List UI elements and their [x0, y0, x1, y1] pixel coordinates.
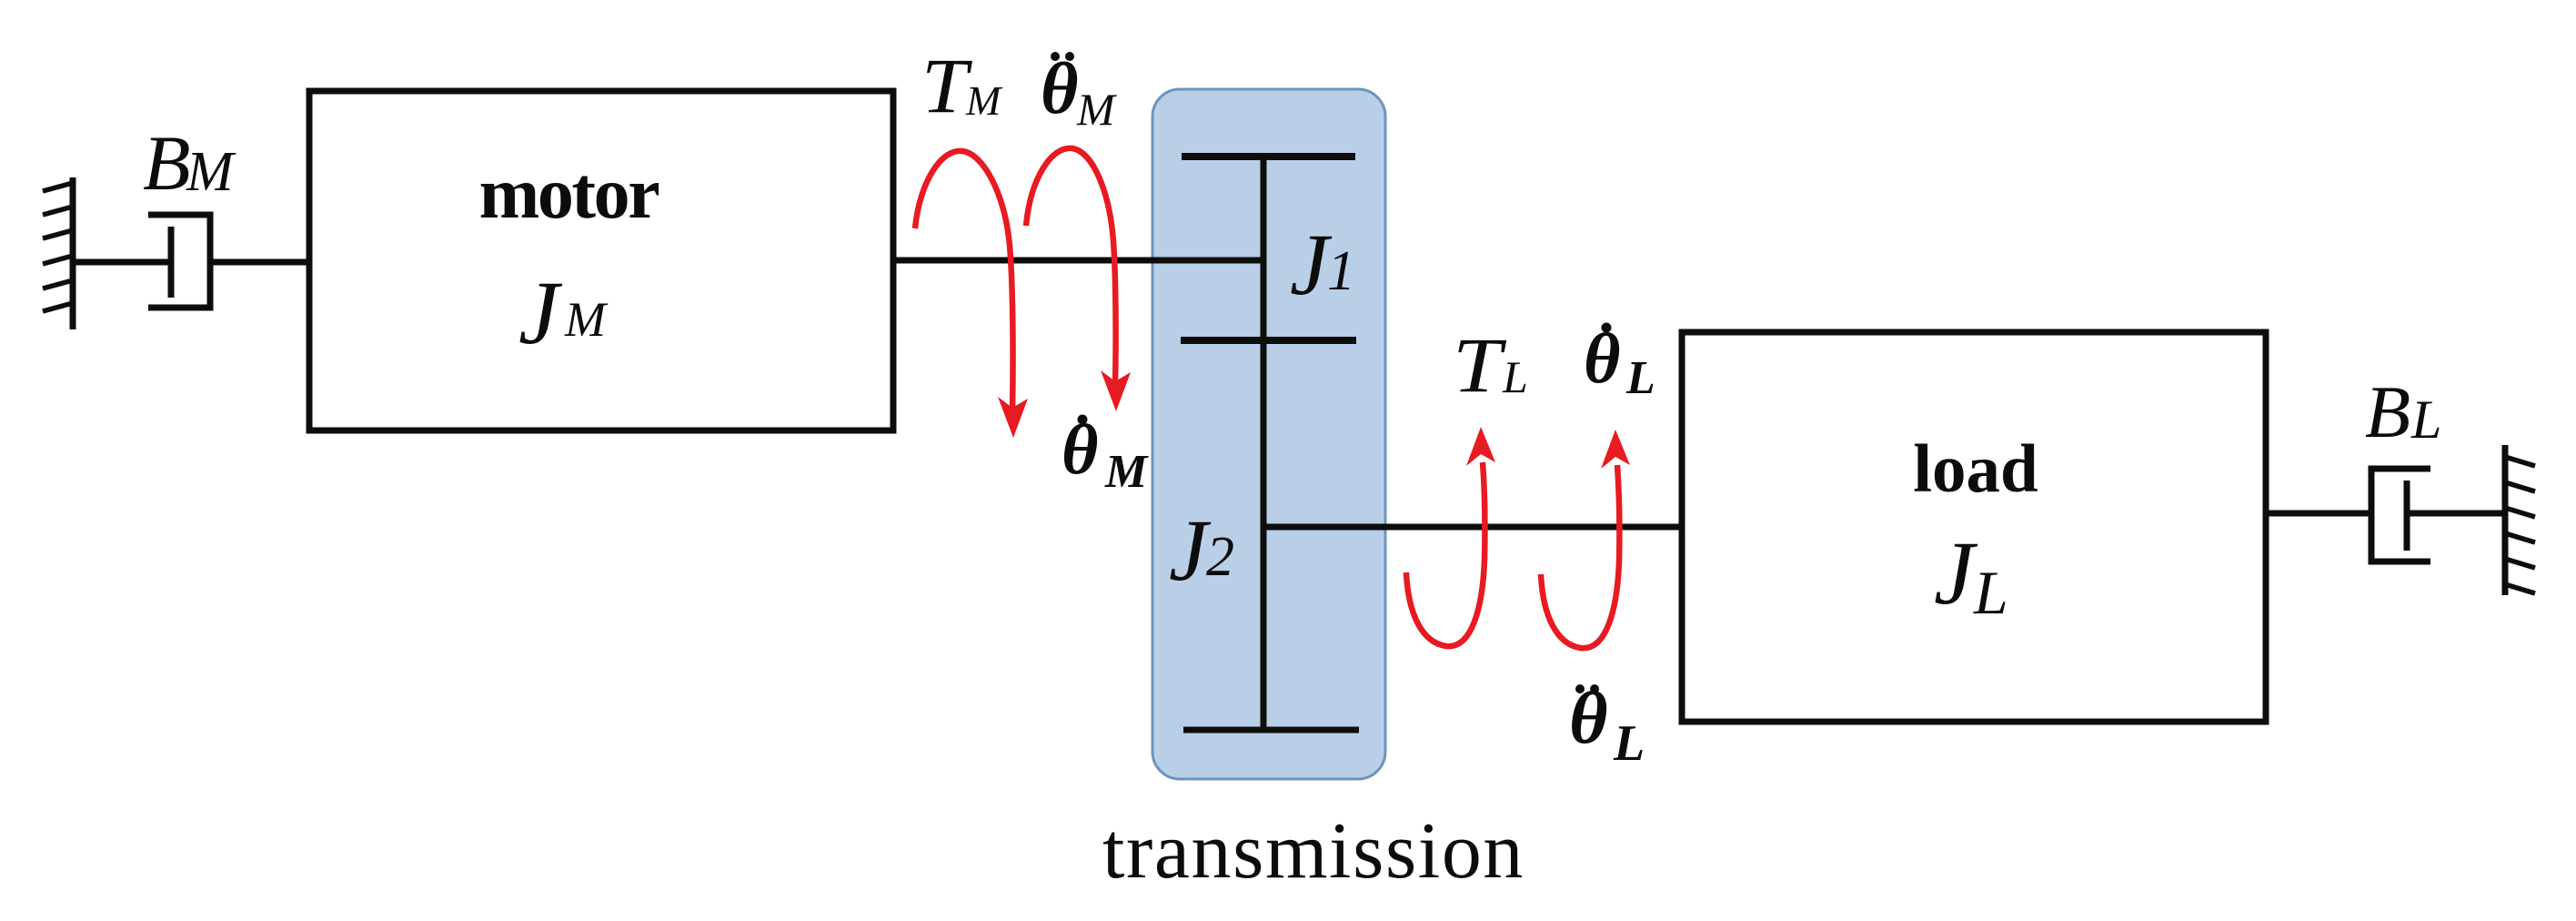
wire damper BM to motor: [210, 259, 309, 266]
svg-text:L: L: [1502, 351, 1528, 402]
gear middle bar: [1181, 337, 1356, 344]
svg-text:1: 1: [1327, 240, 1355, 302]
arrow TM torque: [915, 151, 1028, 438]
label J2: [1169, 501, 1234, 599]
svg-text:J: J: [1934, 522, 1978, 623]
label thetadot M: [1062, 410, 1149, 498]
svg-text:load: load: [1913, 431, 2038, 507]
ground wall left: [43, 177, 73, 329]
svg-text:L: L: [2410, 390, 2441, 450]
arrow thetadot L: [1541, 430, 1630, 648]
gear J2 bottom bar: [1183, 727, 1359, 734]
arrow thetaddot M: [1026, 148, 1131, 411]
label thetaddot M: [1041, 49, 1117, 135]
label TM: [921, 43, 1003, 129]
svg-text:J: J: [518, 262, 563, 363]
svg-text:θ: θ: [1041, 49, 1079, 129]
label thetadot L: [1584, 319, 1655, 404]
arrow TL torque: [1406, 427, 1495, 646]
label TL: [1453, 322, 1528, 409]
svg-text:B: B: [2365, 370, 2410, 453]
svg-text:θ: θ: [1584, 319, 1621, 398]
svg-text:T: T: [1453, 322, 1507, 409]
motor block JM: [309, 91, 893, 430]
svg-text:J: J: [1169, 501, 1212, 599]
svg-text:M: M: [1104, 446, 1149, 498]
wire wall to damper BM piston: [73, 259, 171, 266]
svg-text:transmission: transmission: [1102, 807, 1524, 896]
wire motor shaft to transmission: [893, 258, 1263, 264]
transmission housing: [1152, 89, 1385, 779]
damper BM: [148, 215, 210, 308]
load block JL: [1682, 332, 2266, 722]
svg-text:M: M: [186, 141, 236, 203]
svg-text:M: M: [564, 292, 609, 347]
svg-text:J: J: [1290, 216, 1333, 313]
svg-text:motor: motor: [479, 154, 659, 234]
damper BL: [2371, 469, 2430, 562]
ground wall right: [2505, 445, 2535, 595]
label BM: [143, 119, 236, 207]
gear J1 top bar: [1182, 153, 1355, 160]
svg-text:M: M: [965, 77, 1003, 124]
svg-text:θ: θ: [1569, 676, 1608, 759]
svg-text:L: L: [1625, 352, 1655, 404]
label BL: [2365, 370, 2441, 453]
svg-text:M: M: [1076, 84, 1117, 135]
wire damper BL to wall: [2407, 511, 2505, 517]
svg-text:L: L: [1613, 715, 1645, 772]
wire load to damper BL: [2266, 511, 2371, 517]
gear shaft vertical: [1261, 157, 1267, 730]
svg-text:2: 2: [1206, 526, 1234, 588]
label thetaddot L: [1569, 676, 1645, 772]
wire transmission to load: [1263, 524, 1680, 531]
svg-text:L: L: [1973, 558, 2008, 627]
svg-text:B: B: [143, 119, 191, 207]
label J1: [1290, 216, 1355, 313]
